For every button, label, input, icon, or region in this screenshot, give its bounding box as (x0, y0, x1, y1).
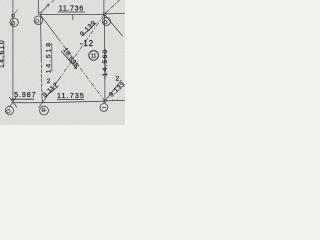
svg-text:11.735: 11.735 (57, 91, 85, 100)
wire bottom line left segment (13, 102, 43, 104)
wire SE diagonal up-right (106, 80, 122, 100)
wire bottom right extension (105, 99, 125, 102)
wire diagonal D_B dash-dot NE to SW (61, 15, 104, 77)
node NE corner (103, 13, 106, 16)
node A top-left (12, 14, 15, 17)
point label circled 11 (89, 51, 99, 61)
node NW corner (39, 12, 42, 15)
svg-text:14.560: 14.560 (102, 49, 109, 77)
wire left outer boundary vertical (12, 0, 14, 103)
wire D_B extension past SW corner (39, 102, 43, 107)
dimension 14.518 left side (45, 41, 52, 73)
svg-text:11: 11 (91, 53, 97, 59)
svg-text:5.987: 5.987 (14, 91, 36, 99)
svg-text:11.736: 11.736 (59, 3, 84, 12)
tick midpoint top side (72, 15, 74, 20)
wire short diag at node A (13, 10, 18, 15)
dimension 9.139 on D_B upper (79, 20, 98, 38)
dot on SE right extension (112, 100, 113, 101)
wire NE horizontal right (106, 12, 125, 14)
survey marker P6 below SE (100, 104, 108, 112)
wire vertical above NW corner (37, 0, 39, 12)
wire vertical above NE corner (103, 0, 105, 13)
svg-text:14.610: 14.610 (0, 39, 6, 68)
svg-text:14.518: 14.518 (45, 41, 52, 73)
svg-text:2: 2 (47, 78, 51, 85)
svg-text:-12: -12 (80, 39, 94, 48)
wire parcel left side (40, 15, 43, 60)
node SE corner (104, 100, 106, 102)
wire NE diagonal down-right (105, 15, 122, 36)
leader arrow of 18.698 (61, 51, 77, 69)
svg-text:2: 2 (115, 76, 119, 83)
survey marker P4 bottom-left (5, 106, 13, 114)
wire NE diagonal up-right (105, 0, 119, 13)
survey marker P2 below NW (34, 16, 43, 25)
dimension 18.698 on D_A (61, 47, 79, 70)
dimension 9.117 on D_B lower (42, 82, 60, 99)
wire parcel right side (104, 15, 106, 101)
clipped dimension at left edge (0, 39, 6, 68)
survey marker P1 top-left (10, 18, 18, 26)
wire arrow diagonal into NW node (41, 4, 49, 13)
survey marker P3 below NE (102, 17, 110, 25)
dimension 14.560 right side (102, 49, 109, 77)
wire parcel top side (40, 13, 104, 15)
wire parcel bottom side (42, 101, 104, 103)
X mark at bottom-left junction (9, 97, 16, 107)
dimension 9.13x SE diagonal (clipped) (108, 81, 126, 99)
wire diagonal D_A NW to SE (41, 16, 58, 39)
survey marker P5 bottom SW (40, 106, 49, 115)
